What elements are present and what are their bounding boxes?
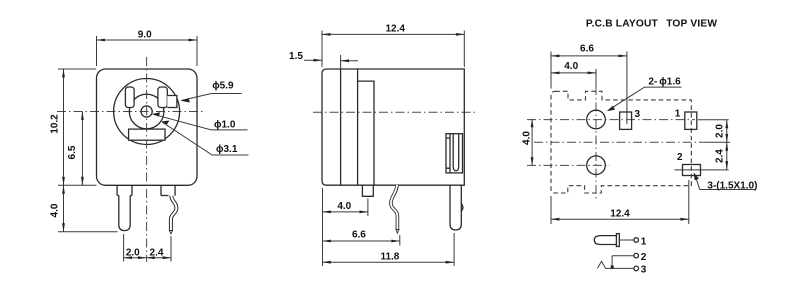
svg-text:2.0: 2.0 — [126, 247, 140, 258]
svg-text:ϕ5.9: ϕ5.9 — [212, 81, 234, 92]
svg-text:2: 2 — [677, 152, 683, 163]
svg-text:3: 3 — [635, 109, 641, 120]
svg-text:12.4: 12.4 — [385, 24, 405, 35]
svg-text:11.8: 11.8 — [380, 252, 399, 263]
svg-text:P.C.B LAYOUT: P.C.B LAYOUT — [586, 18, 659, 29]
svg-text:6.6: 6.6 — [580, 44, 594, 55]
svg-text:3: 3 — [641, 265, 647, 276]
svg-text:2.0: 2.0 — [715, 124, 726, 138]
svg-text:2.4: 2.4 — [715, 149, 726, 163]
svg-text:2.4: 2.4 — [150, 247, 164, 258]
svg-text:6.5: 6.5 — [67, 145, 78, 159]
svg-text:12.4: 12.4 — [610, 208, 630, 219]
svg-text:1: 1 — [675, 109, 681, 120]
svg-text:9.0: 9.0 — [138, 29, 152, 40]
svg-text:4.0: 4.0 — [50, 203, 61, 217]
svg-text:TOP VIEW: TOP VIEW — [666, 18, 717, 29]
svg-text:2- ϕ1.6: 2- ϕ1.6 — [648, 77, 681, 88]
svg-text:1: 1 — [641, 236, 647, 247]
svg-text:4.0: 4.0 — [337, 201, 351, 212]
svg-text:2: 2 — [641, 252, 647, 263]
svg-text:10.2: 10.2 — [50, 114, 61, 134]
svg-text:ϕ3.1: ϕ3.1 — [216, 144, 238, 155]
svg-text:6.6: 6.6 — [352, 230, 366, 241]
svg-text:1.5: 1.5 — [289, 51, 303, 62]
svg-text:4.0: 4.0 — [564, 61, 578, 72]
svg-text:3-(1.5X1.0): 3-(1.5X1.0) — [707, 180, 757, 191]
svg-text:4.0: 4.0 — [522, 131, 533, 145]
svg-text:ϕ1.0: ϕ1.0 — [214, 119, 236, 130]
